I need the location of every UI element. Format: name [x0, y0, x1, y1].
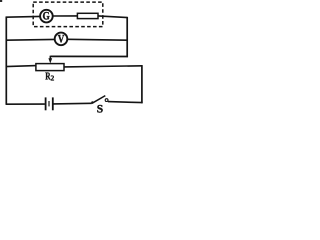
svg-text:2: 2	[51, 74, 55, 83]
wire: left vertical bus	[5, 17, 7, 105]
wire: right vertical battery-loop bus	[141, 65, 143, 103]
wire: voltmeter branch from left bus	[6, 38, 55, 41]
wire: switch to right corner	[108, 102, 143, 103]
wire: voltmeter to right meter bus	[67, 38, 128, 41]
wire: series resistor to right meter bus	[98, 16, 128, 18]
rheostat wiper arrow stem	[49, 56, 51, 60]
switch S left contact	[91, 101, 93, 103]
switch S blade (open)	[92, 96, 105, 104]
wire: left bus to rheostat	[6, 66, 37, 67]
voltmeter V body	[55, 33, 68, 46]
wire: left bus to battery	[6, 103, 45, 105]
scan speck top-left corner	[0, 0, 2, 2]
wire: rheostat to right battery-loop corner	[64, 66, 143, 67]
wire: right vertical meter bus	[126, 17, 128, 57]
dashed enclosure around galvanometer and series resistor	[33, 2, 103, 27]
svg-text:V: V	[58, 34, 65, 46]
rheostat R2 body	[36, 64, 64, 71]
wire: wiper lead from meter bus to rheostat slider	[50, 55, 128, 57]
battery right long plate	[52, 97, 54, 110]
battery left long plate	[45, 97, 47, 110]
wire: top branch from left bus to galvanometer	[6, 15, 41, 18]
battery middle short plate	[48, 101, 50, 106]
series resistor (inside dashed box)	[77, 13, 98, 18]
wire: galvanometer to series resistor	[53, 15, 78, 17]
switch S hinge contact (open circle)	[105, 99, 108, 102]
svg-text:G: G	[43, 11, 50, 23]
wire: battery to switch	[54, 102, 92, 105]
svg-text:S: S	[97, 104, 103, 116]
galvanometer G body	[40, 10, 53, 23]
rheostat wiper arrow head	[48, 58, 52, 63]
